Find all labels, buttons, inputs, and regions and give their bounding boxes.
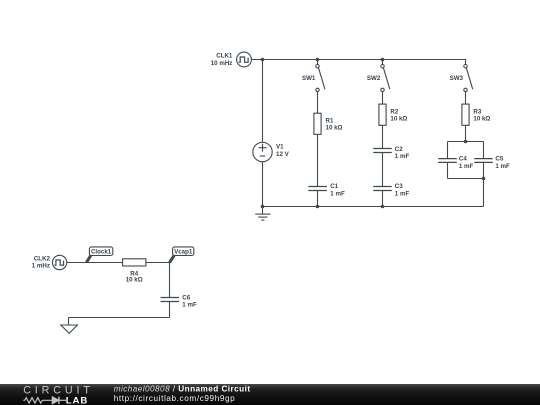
svg-text:Clock1: Clock1 [91,249,112,256]
wire: top rail to SW2 top terminal [382,60,384,65]
svg-text:michael00808 / Unnamed Circuit: michael00808 / Unnamed Circuit [114,384,251,393]
svg-text:R3: R3 [473,108,481,115]
junction node: bottom rail / ground [261,205,265,209]
wire: CLK2 to R4 [67,262,123,264]
wire: loop right branch lower [483,163,485,179]
svg-text:10 kΩ: 10 kΩ [390,116,407,123]
wire: loop to bottom rail [483,179,485,207]
wire: R1 to C1 top plate [317,134,319,186]
wire: bottom rail [263,206,484,208]
svg-text:10 mHz: 10 mHz [211,60,233,67]
resistor R3 [462,104,469,125]
flag Clock1 box [89,247,112,256]
svg-text:SW3: SW3 [450,75,464,82]
flag Vcap1 box [173,247,194,256]
svg-text:C1: C1 [330,183,338,190]
capacitor C6 [161,298,180,302]
svg-text:1 mF: 1 mF [395,153,410,160]
svg-text:CLK2: CLK2 [34,256,51,263]
svg-text:CLK1: CLK1 [216,53,233,60]
wire: loop right branch upper [483,142,485,159]
svg-text:C5: C5 [495,156,503,163]
ground symbol (triangle) [61,325,78,333]
svg-text:C6: C6 [182,295,190,302]
wire: R4 to Vcap1 corner [146,262,170,264]
wire: R2 to C2 top plate [382,125,384,148]
flag Clock1 pointer [86,255,90,262]
wire: C1 bottom plate to bottom rail [317,191,319,207]
flag Vcap1 pointer [170,255,175,262]
resistor R4 [123,259,146,266]
svg-text:10 kΩ: 10 kΩ [473,116,490,123]
svg-text:http://circuitlab.com/c99h9gp: http://circuitlab.com/c99h9gp [114,394,236,403]
svg-text:1 mF: 1 mF [182,302,197,309]
wire: top rail to SW1 top terminal [317,60,319,65]
svg-text:10 kΩ: 10 kΩ [126,277,143,284]
switch SW2 [381,65,390,92]
svg-text:SW1: SW1 [302,75,316,82]
wire: R3 to parallel loop top [465,125,467,141]
junction node: bottom rail / C3 [381,205,385,209]
svg-text:12 V: 12 V [276,151,290,158]
svg-text:10 kΩ: 10 kΩ [326,125,343,132]
svg-text:Vcap1: Vcap1 [174,249,193,256]
wire: C6 down [169,302,171,318]
svg-text:1 mF: 1 mF [495,163,510,170]
footer bar [0,384,540,405]
wire: V1 branch top (rail to V1 plus terminal) [262,60,264,143]
junction node: R3 / loop top [464,140,468,144]
resistor R1 [314,113,321,134]
svg-text:C3: C3 [395,183,403,190]
wire: parallel loop top rail [448,141,484,143]
wire: SW2 bottom terminal to R2 [382,92,384,105]
wire: C3 bottom plate to bottom rail [382,191,384,207]
capacitor C1 [308,187,327,191]
wire: SW1 bottom terminal to R1 [317,92,319,114]
wire: bottom run to ground [69,317,170,319]
junction node: top rail / V1 branch [261,58,265,62]
capacitor C2 [373,149,392,153]
wire: stub down to ground triangle [68,318,70,326]
junction node: top rail / SW2 branch [381,58,385,62]
switch SW1 [316,65,325,92]
wire: V1 minus terminal to bottom rail [262,162,264,207]
resistor R2 [379,104,386,125]
svg-text:V1: V1 [276,144,284,151]
capacitor C4 [438,159,457,163]
switch SW3 [464,65,473,92]
wire: parallel loop bottom rail [448,178,484,180]
wire: corner down to C6 [169,263,171,298]
svg-text:LAB: LAB [66,395,88,405]
svg-text:1 mF: 1 mF [395,190,410,197]
svg-text:R2: R2 [390,108,398,115]
wire: loop left branch lower [447,163,449,179]
svg-text:1 mHz: 1 mHz [32,263,50,270]
junction node: bottom rail / C1 [316,205,320,209]
CircuitLab logo resistor zigzag [23,398,52,403]
wire: top rail corner down to SW3 top terminal [465,59,467,65]
svg-text:1 mF: 1 mF [330,190,345,197]
svg-text:1 mF: 1 mF [459,163,474,170]
ground symbol (earth, 3 bars) [255,207,270,221]
svg-text:C2: C2 [395,146,403,153]
wire: top rail from CLK1 to SW3 corner [251,59,465,61]
wire: C2 bottom plate to C3 top plate [382,153,384,187]
wire: loop left branch upper [447,142,449,159]
junction node: loop bottom right [482,177,486,181]
svg-text:SW2: SW2 [367,75,381,82]
CircuitLab logo diode [52,397,66,404]
svg-text:R1: R1 [326,117,334,124]
voltage source V1 [253,142,272,161]
junction node: top rail / SW1 branch [316,58,320,62]
clock source CLK1 [237,52,252,67]
wire: SW3 bottom terminal to R3 [465,92,467,105]
capacitor C3 [373,187,392,191]
svg-text:C4: C4 [459,156,467,163]
clock source CLK2 [52,255,66,269]
capacitor C5 [474,159,493,163]
